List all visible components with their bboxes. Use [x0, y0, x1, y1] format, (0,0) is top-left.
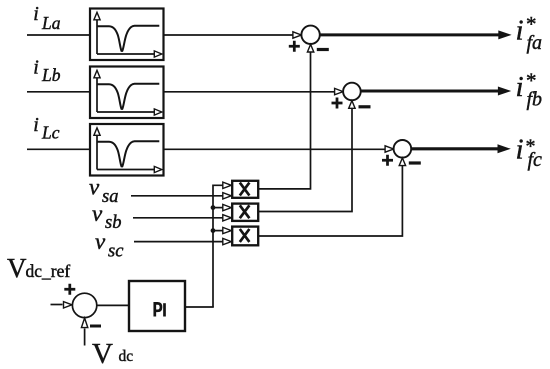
wire V_dc vertical — [84, 329, 86, 346]
label i*_fb — [516, 69, 543, 111]
arrowhead into S2 bottom — [349, 101, 355, 109]
wire v_sa to multiplier X1 — [131, 195, 223, 197]
arrowhead into S3 bottom — [399, 158, 405, 166]
svg-text:Lc: Lc — [41, 123, 60, 143]
wire filter A to summing junction S1 — [164, 34, 294, 36]
svg-text:v: v — [95, 229, 106, 254]
svg-text:sb: sb — [105, 213, 121, 233]
svg-text:v: v — [92, 201, 103, 226]
wire S4 to PI — [97, 304, 129, 306]
arrowhead into S2 left — [335, 88, 344, 94]
node dot branch to X2 — [211, 205, 216, 210]
plus sign S4 — [64, 284, 75, 295]
arrowhead into S3 left — [385, 146, 394, 152]
svg-text:v: v — [89, 174, 100, 199]
svg-text:La: La — [41, 13, 61, 33]
svg-text:fc: fc — [528, 149, 543, 171]
svg-text:dc_ref: dc_ref — [26, 261, 71, 281]
svg-text:i: i — [33, 3, 39, 25]
svg-text:sc: sc — [108, 241, 124, 261]
multiplier X3 — [232, 227, 258, 246]
label v_sa — [89, 174, 118, 207]
wire X1 output up to S1 — [259, 52, 311, 189]
arrowhead PI signal into X3 top — [223, 227, 232, 233]
minus sign S2 — [359, 105, 371, 108]
label i*_fa — [516, 12, 543, 54]
summing junction S2 — [343, 83, 361, 101]
node dot branch to X3 — [211, 228, 216, 233]
summing junction S3 — [394, 140, 412, 158]
svg-text:fb: fb — [527, 89, 543, 111]
svg-text:i: i — [33, 57, 39, 79]
wire branch to X3 top — [213, 230, 223, 232]
svg-text:sa: sa — [102, 187, 118, 207]
label V_dc_ref — [7, 253, 70, 283]
wire PI feedback vertical — [213, 185, 223, 307]
wire filter C to summing junction S3 — [164, 148, 386, 150]
filter block A — [90, 9, 164, 61]
arrowhead v_sb into X2 — [223, 215, 232, 221]
svg-text:dc: dc — [119, 348, 134, 365]
filter block B — [90, 67, 164, 119]
plus sign S2 — [332, 98, 343, 109]
label v_sc — [95, 229, 124, 261]
label i_Lb — [33, 57, 60, 85]
arrowhead into S1 left — [293, 32, 302, 38]
arrowhead into S1 bottom — [307, 44, 313, 52]
svg-text:Lb: Lb — [41, 65, 61, 85]
minus sign S4 — [90, 325, 101, 328]
label V_dc — [92, 338, 133, 369]
label i_Lc — [33, 114, 59, 142]
multiplier X2 — [232, 204, 258, 221]
arrowhead into S4 bottom — [81, 318, 87, 328]
wire filter B to summing junction S2 — [164, 91, 335, 93]
arrowhead v_sa into X1 — [223, 193, 232, 199]
thick output arrow b — [361, 89, 499, 92]
wire PI output to vertical riser — [185, 306, 214, 308]
wire v_sc to multiplier X3 — [134, 241, 223, 243]
svg-text:V: V — [92, 338, 113, 369]
label v_sb — [92, 201, 121, 233]
wire input to S4 — [51, 304, 63, 306]
svg-text:fa: fa — [527, 32, 543, 54]
svg-text:i: i — [516, 133, 524, 165]
svg-text:i: i — [516, 71, 524, 103]
PI controller — [129, 281, 185, 331]
arrowhead PI signal into X1 top — [223, 182, 232, 188]
plus sign S3 — [382, 155, 393, 166]
wire v_sb to multiplier X2 — [133, 217, 223, 219]
minus sign S3 — [409, 161, 421, 164]
wire input c to filter — [27, 148, 91, 150]
wire input b to filter — [27, 91, 91, 93]
wire input a to filter — [27, 34, 91, 36]
thick output arrow c — [411, 147, 498, 150]
label i*_fc — [516, 133, 543, 171]
arrowhead into S4 left — [64, 302, 73, 308]
svg-text:i: i — [516, 14, 524, 46]
thick output arrow a — [320, 33, 500, 36]
multiplier X1 — [232, 181, 258, 198]
wire X2 output up to S2 — [259, 108, 353, 211]
minus sign S1 — [317, 48, 329, 51]
summing junction S4 — [72, 293, 96, 317]
label i_La — [33, 3, 60, 33]
filter block C — [90, 124, 164, 176]
wire X3 output up to S3 — [259, 166, 403, 236]
svg-text:V: V — [7, 253, 27, 283]
wire branch to X2 top — [213, 207, 223, 209]
svg-text:i: i — [33, 114, 39, 136]
arrowhead v_sc into X3 — [223, 238, 232, 244]
plus sign S1 — [289, 41, 300, 52]
summing junction S1 — [301, 26, 319, 44]
arrowhead PI signal into X2 top — [223, 204, 232, 210]
